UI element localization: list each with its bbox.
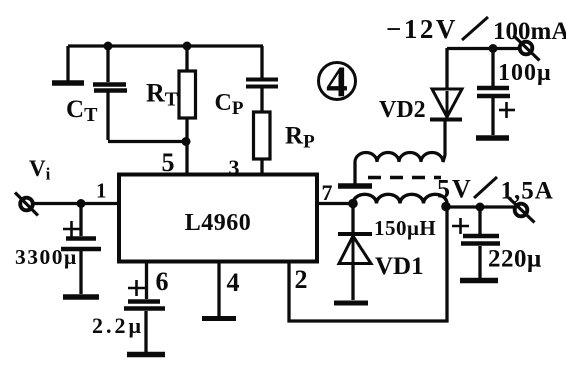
wire -12V output xyxy=(447,47,520,50)
diode VD1 xyxy=(351,204,354,233)
capacitor CT xyxy=(106,46,109,82)
ground (2.2u) xyxy=(127,352,165,358)
wire input to pin 1 xyxy=(33,202,119,205)
node 5V junction xyxy=(441,202,451,212)
diode VD2 xyxy=(430,118,462,122)
svg-text:−12V: −12V xyxy=(386,14,458,44)
svg-text:4: 4 xyxy=(227,268,240,297)
capacitor 100u xyxy=(491,48,494,86)
svg-text:5: 5 xyxy=(162,148,175,177)
node 220u junction xyxy=(476,203,485,212)
ground (100u) xyxy=(476,135,509,141)
output terminal -12V xyxy=(520,42,533,55)
ground (transformer secondary) xyxy=(338,183,372,189)
transformer secondary winding xyxy=(355,121,445,162)
svg-text:2: 2 xyxy=(295,265,308,294)
circled figure number 4 xyxy=(319,63,356,100)
svg-text:VD2: VD2 xyxy=(379,97,426,123)
wire pin 2 feedback loop xyxy=(289,208,447,321)
svg-text:3: 3 xyxy=(229,155,240,180)
node input cap junction xyxy=(77,199,86,208)
svg-text:2.2μ: 2.2μ xyxy=(92,313,144,338)
op-amp U1 L4960 body xyxy=(119,175,317,262)
capacitor 220u xyxy=(478,207,481,234)
svg-text:150μH: 150μH xyxy=(374,216,436,240)
svg-text:3300μ: 3300μ xyxy=(15,245,78,269)
wire pin 3 lead xyxy=(260,159,263,176)
ground (220u) xyxy=(460,278,498,284)
capacitor CP xyxy=(260,46,263,78)
svg-text:4: 4 xyxy=(326,59,348,106)
ground (VD1) xyxy=(334,301,368,306)
transformer core (dashed coupling line) xyxy=(368,176,441,179)
svg-text:5V: 5V xyxy=(437,175,473,204)
capacitor 3300u xyxy=(79,204,82,237)
node pin5 junction xyxy=(182,137,191,146)
node RT-top junction xyxy=(183,42,192,51)
svg-text:1: 1 xyxy=(96,179,107,203)
inductor L1 150uH xyxy=(353,194,447,203)
node 100u junction xyxy=(489,44,498,53)
wire CT bottom to pin5 node xyxy=(108,140,187,143)
wire pin 5 lead xyxy=(185,141,188,175)
svg-text:100mA: 100mA xyxy=(493,18,566,45)
wire pin 7 lead xyxy=(317,202,353,205)
wire pin 6 lead xyxy=(145,261,148,299)
ground (3300u) xyxy=(63,294,99,300)
node pin7 junction xyxy=(348,199,358,209)
output terminal 5V xyxy=(515,204,528,217)
svg-text:VD1: VD1 xyxy=(375,253,424,280)
resistor RT xyxy=(185,46,188,71)
wire top ground rail xyxy=(68,44,263,47)
svg-text:6: 6 xyxy=(156,267,169,296)
node CT-top junction xyxy=(104,42,113,51)
input terminal Vi xyxy=(20,198,33,211)
svg-text:220μ: 220μ xyxy=(488,246,542,273)
svg-text:100μ: 100μ xyxy=(498,60,552,86)
wire pin 4 lead xyxy=(217,261,220,316)
wire 5V output xyxy=(446,205,514,208)
resistor RP xyxy=(254,112,271,159)
svg-text:7: 7 xyxy=(322,180,333,205)
ground (top-left rail) xyxy=(66,46,69,81)
svg-text:L4960: L4960 xyxy=(185,210,252,236)
svg-text:1,5A: 1,5A xyxy=(501,178,554,205)
ground (pin 4) xyxy=(202,316,236,321)
capacitor 2.2u xyxy=(128,287,145,290)
